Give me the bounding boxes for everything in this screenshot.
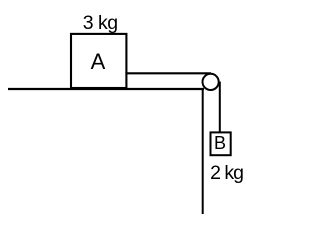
string horizontal segment from A to pulley bbox=[125, 72, 211, 74]
table right edge vertical line bbox=[202, 89, 204, 215]
pulley at table corner bbox=[203, 74, 219, 90]
table top surface line bbox=[8, 88, 204, 90]
block A (3 kg box on table) bbox=[71, 34, 126, 88]
svg-text:2 kg: 2 kg bbox=[210, 162, 243, 184]
string vertical segment from pulley to B bbox=[219, 82, 221, 133]
svg-text:B: B bbox=[214, 133, 226, 153]
svg-text:3 kg: 3 kg bbox=[83, 12, 118, 34]
block B (hanging 2 kg box) bbox=[211, 132, 231, 155]
svg-text:A: A bbox=[91, 49, 106, 74]
